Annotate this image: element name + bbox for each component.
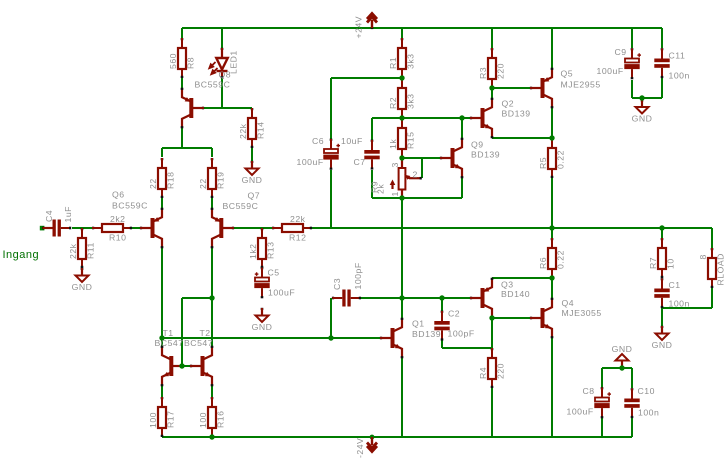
capacitor C8 (594, 388, 611, 419)
svg-text:R10: R10 (109, 233, 126, 243)
wire bias to Q9 collector (461, 118, 463, 138)
wire R15 bottom to Q9 base (402, 157, 440, 159)
svg-text:0.22: 0.22 (555, 150, 565, 169)
supply +24V (367, 14, 377, 29)
wire C9 bottom leg (631, 80, 633, 98)
resistor R6 (538, 238, 565, 278)
svg-text:BD139: BD139 (471, 150, 500, 160)
svg-text:100uF: 100uF (268, 288, 295, 298)
svg-text:Q9: Q9 (471, 140, 484, 150)
svg-text:C8: C8 (583, 386, 595, 396)
wire T1-T2 bases (183, 365, 191, 367)
wire C6 to output rail (330, 170, 332, 228)
svg-text:100: 100 (148, 412, 158, 428)
svg-text:BC547: BC547 (184, 338, 213, 348)
wire Q7 collector to T2 collector (211, 248, 213, 346)
wire C7 to bottom (371, 170, 373, 198)
svg-text:3: 3 (390, 162, 400, 167)
transistor Q5 (530, 68, 553, 108)
svg-text:1k2: 1k2 (248, 243, 258, 259)
wire C3 leg (330, 298, 332, 338)
wire C2 bottom leg (441, 340, 443, 348)
capacitor C7 (364, 140, 379, 169)
svg-text:C2: C2 (448, 309, 460, 319)
wire bias to C7 (371, 118, 373, 140)
wire rail to Q5 emitter (551, 28, 553, 68)
svg-text:BD140: BD140 (501, 289, 530, 299)
svg-text:10uF: 10uF (341, 136, 363, 146)
wire output rail (312, 227, 712, 229)
wire C9-C11 bottom (632, 97, 662, 99)
svg-text:R16: R16 (215, 411, 225, 428)
svg-text:+24V: +24V (354, 16, 364, 39)
svg-text:C1: C1 (669, 280, 681, 290)
svg-text:22k: 22k (68, 243, 78, 259)
wire Q3 emitter to R6/Q4 (492, 277, 552, 279)
svg-text:R19: R19 (215, 172, 225, 189)
svg-text:C11: C11 (669, 51, 686, 61)
wire T2 emitter to R16 (211, 386, 213, 397)
svg-text:10: 10 (665, 258, 675, 269)
wire Q1 emitter to -24V rail (401, 358, 403, 437)
svg-text:C7: C7 (354, 157, 366, 167)
svg-text:R18: R18 (165, 172, 175, 189)
svg-text:1: 1 (390, 191, 400, 196)
wire Q5 base (492, 87, 530, 89)
wire C11 bottom leg (661, 78, 663, 98)
transistor Q6 (140, 208, 163, 248)
svg-text:GND: GND (652, 340, 673, 350)
svg-text:100uF: 100uF (567, 407, 594, 417)
wire Q7 base to R13 (234, 227, 272, 229)
transistor Q9 (440, 138, 463, 178)
capacitor C5 (254, 268, 269, 299)
wire R19 to Q7 emitter (211, 198, 213, 208)
svg-text:22: 22 (148, 178, 158, 189)
svg-text:22: 22 (198, 178, 208, 189)
svg-text:C4: C4 (44, 210, 54, 222)
svg-text:GND: GND (242, 175, 263, 185)
capacitor C1 (654, 279, 669, 308)
svg-text:100pF: 100pF (448, 329, 475, 339)
wire Q2 base bias (372, 117, 470, 119)
svg-text:2k: 2k (376, 184, 386, 194)
svg-text:BD139: BD139 (412, 329, 441, 339)
ground GND (C9-C11) (632, 100, 653, 124)
svg-text:Q1: Q1 (412, 319, 425, 329)
resistor R10 (92, 214, 132, 243)
svg-text:100n: 100n (669, 299, 690, 309)
svg-text:100n: 100n (669, 71, 690, 81)
transistor Q2 (470, 98, 493, 138)
resistor R19 (198, 158, 225, 198)
wire rail to R1 (401, 28, 403, 38)
svg-text:BC547: BC547 (155, 338, 184, 348)
svg-text:560: 560 (168, 53, 178, 69)
wire R19 top (211, 148, 213, 157)
svg-text:100uF: 100uF (297, 157, 324, 167)
wire Q6 collector rail to Q1 base (162, 337, 380, 339)
wire C10 bottom leg (631, 418, 633, 437)
svg-text:BC559C: BC559C (195, 80, 231, 90)
wire C7 bottom rail (372, 197, 462, 199)
resistor R13 (248, 228, 275, 268)
svg-text:GND: GND (632, 113, 653, 123)
wire C8 bottom leg (601, 417, 603, 437)
svg-text:220: 220 (495, 63, 505, 79)
wire R18 to Q6 emitter (161, 198, 163, 208)
svg-text:-24V: -24V (355, 438, 365, 458)
svg-text:R11: R11 (85, 242, 95, 259)
svg-text:0.22: 0.22 (555, 250, 565, 269)
wire R5 to output / R6 (551, 178, 553, 238)
wire LED1 to Q8 base (221, 78, 223, 108)
resistor R7 (648, 238, 675, 278)
wire trimmer wiper leg (421, 158, 423, 178)
svg-text:R1: R1 (388, 57, 398, 69)
svg-text:C10: C10 (638, 386, 655, 396)
wire R6 to Q4 collector (551, 278, 553, 298)
svg-text:C3: C3 (332, 278, 342, 290)
svg-text:C9: C9 (615, 47, 627, 57)
svg-text:R5: R5 (538, 157, 548, 169)
transistor T2 (190, 346, 213, 386)
wire R18 top (161, 148, 163, 157)
svg-text:2k2: 2k2 (110, 214, 126, 224)
wire Q3 collector to Q4 base (492, 317, 530, 319)
wire bootstrap to C6 (330, 78, 332, 139)
wire T2 collector bridge (182, 297, 212, 299)
svg-text:R14: R14 (255, 122, 265, 139)
svg-text:1k: 1k (388, 139, 398, 149)
svg-text:Q7: Q7 (248, 191, 261, 201)
resistor R14 (238, 108, 265, 148)
resistor R2 (388, 78, 415, 118)
wire Q2 emitter to R5 (492, 137, 552, 139)
wire Q3 base net to C2 (441, 298, 443, 311)
node input terminal (40, 226, 45, 231)
transistor Q8 (181, 88, 204, 128)
wire C1 to GND (661, 308, 663, 326)
svg-text:MJE2955: MJE2955 (561, 80, 601, 90)
wire rail to C9 (631, 28, 633, 48)
resistor R8 (168, 38, 195, 78)
svg-text:Q2: Q2 (502, 99, 515, 109)
svg-text:BC559C: BC559C (112, 201, 148, 211)
svg-text:R2: R2 (388, 97, 398, 109)
svg-text:22k: 22k (238, 123, 248, 139)
wire R18-R19 top rail (162, 147, 212, 149)
wire output to R7 (661, 228, 663, 238)
LED LED1 (209, 48, 227, 78)
svg-text:3k3: 3k3 (405, 53, 415, 69)
capacitor C2 (434, 311, 449, 340)
wire R3 to Q2 collector (491, 88, 493, 98)
svg-text:Q3: Q3 (501, 280, 514, 290)
supply -24V (367, 435, 377, 452)
wire -24V rail (162, 436, 632, 438)
resistor R16 (198, 397, 225, 437)
svg-text:R8: R8 (185, 57, 195, 69)
wire C1 to RLOAD bottom (662, 307, 712, 309)
wire Q3 collector down (491, 318, 493, 348)
capacitor C6 (323, 139, 340, 170)
svg-text:R6: R6 (538, 257, 548, 269)
svg-text:C6: C6 (312, 136, 324, 146)
svg-text:R15: R15 (405, 132, 415, 149)
capacitor C3 (332, 290, 360, 307)
wire T1 emitter to R17 (161, 386, 163, 397)
transistor Q7 (211, 208, 234, 248)
wire rail to R8 (181, 28, 183, 38)
ground GND (R14) (242, 161, 263, 185)
svg-text:100n: 100n (638, 408, 659, 418)
svg-text:R4: R4 (478, 367, 488, 379)
wire +24V rail (182, 27, 662, 29)
resistor R15 (388, 118, 415, 158)
wire C10 top leg (631, 368, 633, 388)
wire bases bridge vertical (181, 298, 183, 366)
svg-text:220: 220 (495, 363, 505, 379)
wire C3 to Q3 base (358, 297, 470, 299)
svg-text:2: 2 (413, 170, 418, 180)
wire Q5 collector to R5 (551, 108, 553, 138)
wire Q9 emitter down (461, 178, 463, 198)
resistor R3 (478, 48, 505, 88)
wire Q6 collector to T1 collector (161, 248, 163, 346)
svg-text:22k: 22k (290, 214, 306, 224)
svg-text:R12: R12 (289, 233, 306, 243)
capacitor C11 (654, 49, 669, 78)
capacitor C10 (624, 389, 639, 418)
svg-text:RLOAD: RLOAD (715, 253, 725, 285)
transistor Q4 (530, 298, 553, 338)
wire output corner to RLOAD (711, 228, 713, 248)
transistor Q1 (380, 318, 403, 358)
svg-text:BC559C: BC559C (223, 201, 259, 211)
svg-text:Q8: Q8 (219, 70, 232, 80)
svg-text:GND: GND (72, 282, 93, 292)
svg-text:R7: R7 (648, 257, 658, 269)
svg-text:100: 100 (198, 412, 208, 428)
wire R8 to Q8 emitter (181, 78, 183, 88)
svg-text:R13: R13 (265, 242, 275, 259)
svg-text:1uF: 1uF (63, 206, 73, 222)
trimmer R9 (390, 158, 422, 198)
wire rail to LED1 (221, 28, 223, 48)
wire C2 bottom to R4 (442, 347, 492, 349)
wire R4 to -24V rail (491, 388, 493, 437)
capacitor C4 (43, 220, 71, 237)
svg-text:Q4: Q4 (562, 298, 575, 308)
resistor R17 (148, 397, 175, 437)
capacitor C9 (624, 49, 641, 80)
svg-text:GND: GND (252, 322, 273, 332)
wire RLOAD bottom (711, 288, 713, 308)
svg-text:R3: R3 (478, 67, 488, 79)
svg-text:Q6: Q6 (112, 190, 125, 200)
svg-text:3k3: 3k3 (405, 93, 415, 109)
wire R14 to GND (251, 148, 253, 161)
wire C8 top leg (601, 368, 603, 388)
ground GND (C5) (252, 308, 273, 332)
resistor R11 (68, 228, 95, 268)
svg-text:GND: GND (612, 344, 633, 354)
junction dots (399, 75, 404, 80)
svg-text:100uF: 100uF (597, 66, 624, 76)
wire rail to R3 (491, 28, 493, 48)
ground GND (C1) (652, 326, 673, 350)
svg-text:MJE3055: MJE3055 (562, 308, 602, 318)
wire C8-C10 top (602, 367, 632, 369)
svg-text:8: 8 (698, 254, 708, 259)
svg-text:100pF: 100pF (353, 262, 363, 289)
transistor T1 (161, 346, 184, 386)
resistor R4 (478, 348, 505, 388)
svg-text:Ingang: Ingang (3, 249, 40, 261)
svg-text:C5: C5 (268, 268, 280, 278)
resistor R5 (538, 138, 565, 178)
svg-text:T2: T2 (200, 328, 211, 338)
wire R10 to Q6 base (132, 227, 140, 229)
transistor Q3 (470, 278, 493, 318)
wire R1-R2 to C6 bootstrap (331, 77, 402, 79)
resistor R18 (148, 158, 175, 198)
resistor R12 (272, 214, 312, 243)
svg-text:Q5: Q5 (561, 69, 574, 79)
resistor RLOAD (708, 248, 716, 288)
wire rail corner to C11 (661, 28, 663, 48)
wire trimmer bottom to Q1 collector (401, 198, 403, 318)
ground GND (R11) (72, 268, 93, 292)
wire input to R11/R10 (72, 227, 92, 229)
resistor R1 (388, 38, 415, 78)
wire Q8 collector down (181, 128, 183, 148)
svg-text:R17: R17 (165, 411, 175, 428)
svg-text:BD139: BD139 (502, 109, 531, 119)
wire Q8 base to R14/LED (204, 107, 252, 109)
svg-text:T1: T1 (163, 328, 174, 338)
ground GND (C8-C10) (612, 344, 633, 368)
wire Q4 emitter to -24V rail (551, 338, 553, 437)
